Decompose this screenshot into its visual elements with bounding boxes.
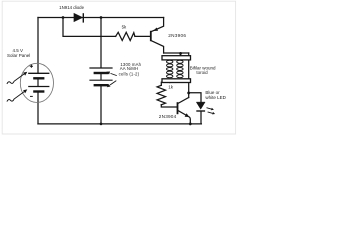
wire 5k to Q1 base [135,35,150,37]
node B junction dot [100,16,103,19]
LED light arrow 1 [207,108,214,111]
wire left rail (through solar panel) [37,18,39,74]
node A junction dot [62,16,65,19]
leader arrow battery 2 [107,81,117,88]
diode D1 1N914 [74,13,83,22]
svg-text:cells (1-2): cells (1-2) [119,71,140,76]
wire R2 to Q2 base [161,105,176,107]
svg-text:Solar Panel: Solar Panel [7,53,30,58]
wire LED branch [189,93,201,102]
wire LED cathode down [200,111,202,124]
svg-text:toroid: toroid [196,70,208,75]
resistor R2 1k [157,85,165,104]
node D junction dot [179,52,182,55]
LED light arrow 2 [208,112,216,115]
wire left winding bottom to R2 [161,82,170,85]
wire battery branch lower [100,85,102,124]
wire Q1 emitter to top rail [152,18,164,32]
transformer T1 bifilar toroid [162,56,191,83]
wire base branch from node A down and right [63,18,116,37]
light arrow into panel 2 [7,89,27,101]
svg-text:1N914 diode: 1N914 diode [59,5,84,10]
wire toroid top [164,52,189,54]
solar panel PV1 [7,63,54,102]
node F junction dot [187,91,190,94]
svg-text:AA NiMH: AA NiMH [120,66,138,71]
battery B1 cells [90,68,112,85]
wire Q2 emitter [178,111,190,124]
transistor Q2 2N3904 [177,102,190,117]
wire Q2 collector diag [178,98,188,104]
svg-text:1k: 1k [168,84,174,89]
LED D2 [196,102,215,114]
toroid core top bar [162,56,191,60]
svg-text:white LED: white LED [205,95,226,100]
wire battery branch upper [100,18,102,68]
node C junction dot [100,123,103,126]
svg-text:2N3906: 2N3906 [168,33,186,38]
wire top rail [38,17,164,19]
resistor R1 5k [116,32,135,40]
wire right winding drop [188,53,190,98]
node G junction dot [189,123,192,126]
node E junction dot [168,81,171,84]
winding W1 [167,60,173,77]
wire left rail lower [37,92,39,124]
leader arrow battery 1 [106,72,117,76]
wire stub winding tap [179,53,181,56]
figure frame (faint) [2,1,235,134]
toroid core bottom bar [162,79,191,83]
svg-text:5k: 5k [122,24,127,29]
winding W2 [177,60,183,77]
transistor Q1 2N3906 [150,28,158,42]
light arrow into panel 1 [7,72,27,84]
wire Q1 collector down [152,41,164,53]
svg-text:2N3904: 2N3904 [159,114,177,119]
wire bottom rail [38,123,201,125]
